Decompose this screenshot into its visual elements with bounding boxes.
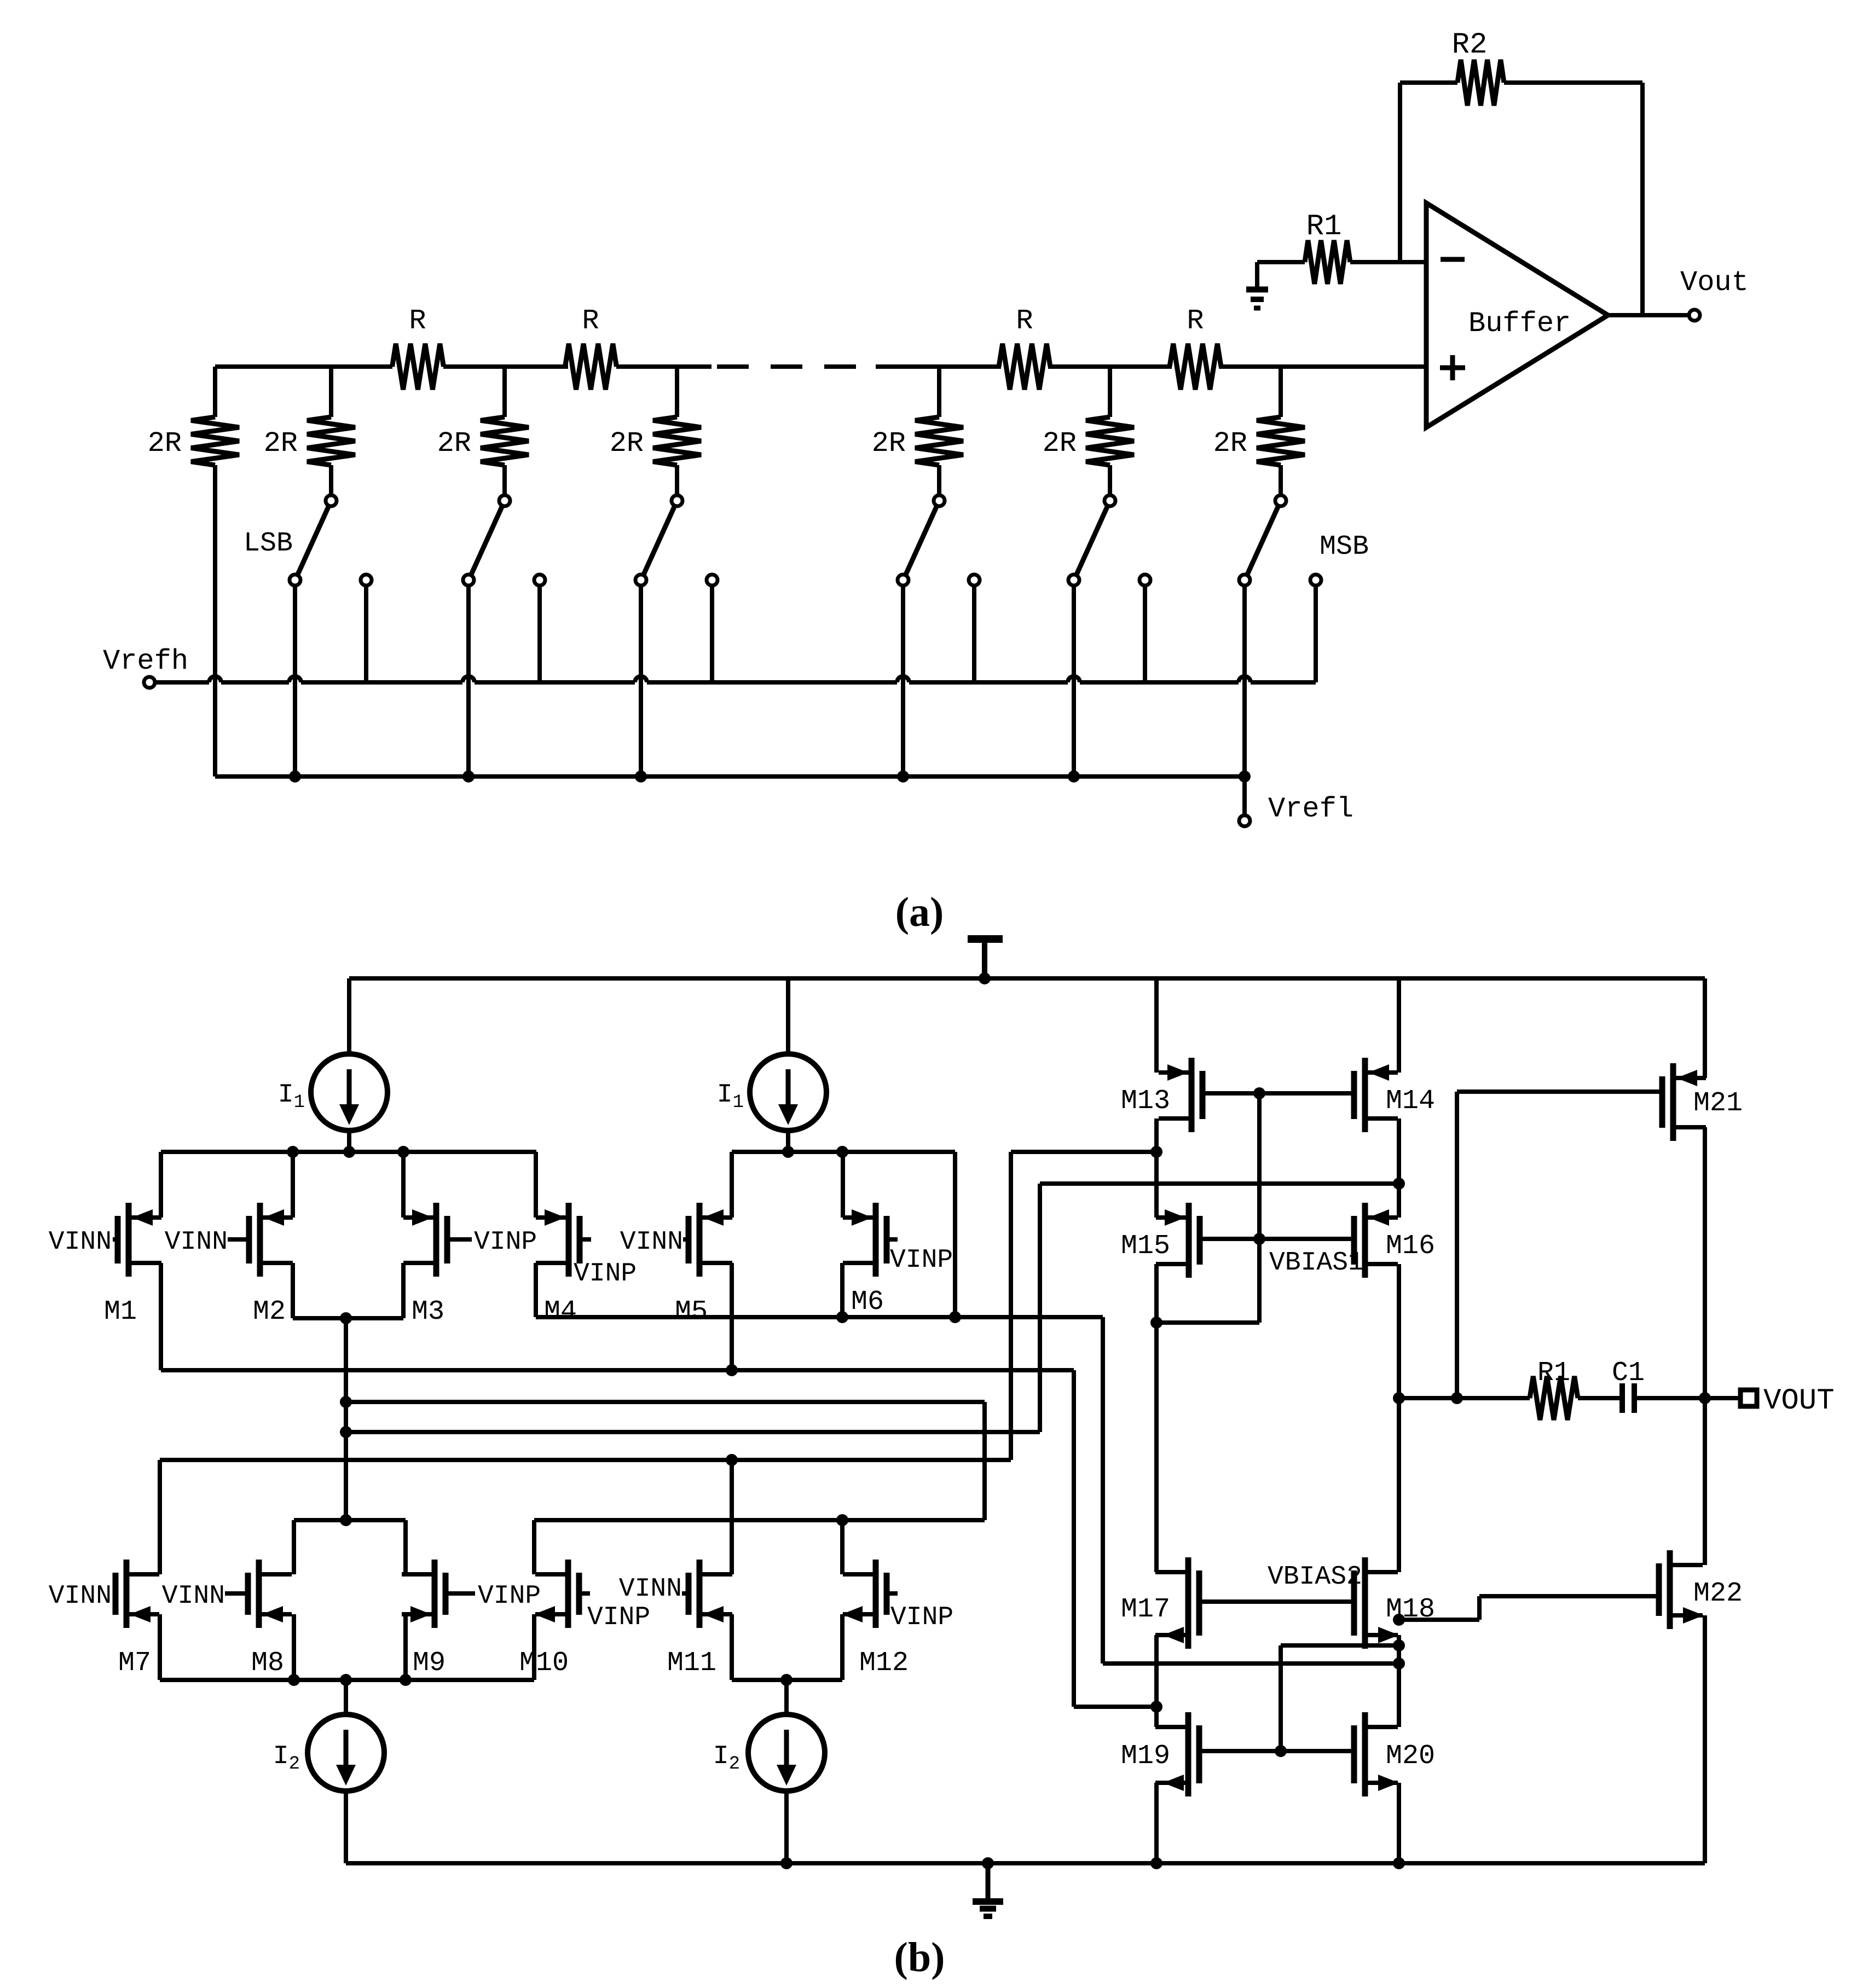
switch S2 right contact <box>534 575 545 586</box>
junction M12 busF <box>836 1514 848 1526</box>
switch S3 common <box>672 495 682 506</box>
transistor M17 <box>1185 1557 1191 1649</box>
transistor M6 <box>873 1203 879 1277</box>
junction Vrefl <box>635 770 647 783</box>
switch S5 lever <box>1076 506 1108 576</box>
wire gate1920 link <box>1281 1643 1399 1648</box>
junction Vrefl corner <box>1239 770 1251 783</box>
wire ladder seg3 <box>616 364 712 369</box>
switch S6 lever <box>1247 506 1279 576</box>
wire R1a left lead <box>1257 260 1305 264</box>
wire trio1 drain bus <box>294 1518 406 1522</box>
wire M19M20 gate wire <box>1199 1749 1354 1753</box>
svg-text:VINN: VINN <box>162 1581 225 1611</box>
current source I1b <box>750 1054 826 1131</box>
wire M13-M15 link <box>1154 1118 1159 1218</box>
wire ladder seg6 <box>1219 364 1426 369</box>
wire M11 gate lead <box>682 1591 689 1596</box>
junction rowA V1 <box>949 1311 961 1323</box>
wire M5 gate lead <box>683 1237 689 1242</box>
junction Vrefl <box>897 770 909 783</box>
wire 2R6 bottom lead <box>1108 465 1112 495</box>
wire M9 top up <box>403 1520 408 1574</box>
svg-text:VINN: VINN <box>620 1227 683 1257</box>
svg-text:R2: R2 <box>1452 28 1488 62</box>
resistor R (2nd) <box>565 344 617 390</box>
wire bus1 <box>161 1150 536 1154</box>
junction x632 rowC <box>340 1396 352 1408</box>
switch S4 right contact <box>969 575 980 586</box>
svg-text:R: R <box>1016 305 1033 337</box>
wire row A <box>536 1315 1103 1319</box>
junction M22 gate tap <box>1393 1614 1405 1626</box>
junction bus1 M2 <box>287 1146 299 1158</box>
svg-text:Vout: Vout <box>1680 266 1749 299</box>
wire row B <box>161 1368 1074 1372</box>
switch S4 lever <box>905 506 937 576</box>
wire V4 <box>1072 1370 1076 1707</box>
junction M6 rowA <box>836 1311 848 1323</box>
wire M12 bottom down <box>840 1614 844 1680</box>
transistor M14 <box>1362 1058 1368 1132</box>
switch S2 lever <box>471 506 502 576</box>
current source I1a <box>311 1054 387 1131</box>
wire ladder left segment <box>215 364 392 369</box>
hop S4 over Vrefh <box>897 676 909 682</box>
switch S2 left contact <box>463 575 474 586</box>
wire out1 line <box>1399 1396 1530 1400</box>
wire feedback right vert <box>1640 83 1645 315</box>
transistor M4 <box>566 1203 572 1277</box>
wire row D <box>346 1430 1040 1434</box>
junction bus2 I1b <box>782 1146 794 1158</box>
svg-text:Vrefl: Vrefl <box>1268 793 1353 825</box>
wire M12 drain up <box>840 1520 844 1574</box>
wire I1a bottom lead <box>347 1131 351 1152</box>
svg-text:M13: M13 <box>1121 1086 1170 1117</box>
switch S2 common <box>499 495 510 506</box>
switch S5 left contact <box>1068 575 1079 586</box>
hop 2R1 over Vrefh <box>209 676 221 682</box>
hop S5 over Vrefh <box>1068 676 1080 682</box>
junction Q end <box>1150 1701 1162 1713</box>
wire M20 source down <box>1397 1783 1401 1863</box>
switch S5 common <box>1104 495 1115 506</box>
wire M2 top up <box>291 1152 295 1218</box>
wire 2R3 bottom lead <box>502 465 507 495</box>
wire M17 column down <box>1154 1635 1159 1727</box>
svg-text:Vrefh: Vrefh <box>103 645 188 677</box>
wire 2R6 top lead <box>1108 367 1112 417</box>
svg-text:VINP: VINP <box>890 1603 953 1632</box>
transistor M1 <box>126 1203 132 1277</box>
junction M5 rowB <box>726 1364 738 1376</box>
transistor M5 <box>697 1203 703 1277</box>
svg-text:R: R <box>409 305 426 337</box>
junction M15 drain tap <box>1150 1317 1162 1329</box>
transistor M22 <box>1667 1550 1673 1629</box>
hop S1 over Vrefh <box>289 676 301 682</box>
junction bus2 at M13 column <box>1150 1146 1162 1158</box>
junction M18 col P... gate19 link <box>1393 1639 1405 1651</box>
wire M19 source down <box>1154 1783 1159 1863</box>
wire S4 left contact to Vrefl <box>901 586 905 776</box>
svg-text:M14: M14 <box>1386 1086 1435 1117</box>
hop S3 over Vrefh <box>635 676 647 682</box>
wire V1 <box>953 1152 957 1317</box>
resistor R (1st) <box>392 344 444 390</box>
wire M12 gate lead <box>887 1591 898 1596</box>
wire Vrefh bus <box>155 680 209 685</box>
terminal Vrefh <box>144 677 155 688</box>
wire M2 bottom down <box>291 1263 295 1318</box>
junction P end <box>1393 1657 1405 1670</box>
current source I2b <box>748 1714 825 1791</box>
svg-text:(a): (a) <box>895 889 944 935</box>
wire M4 bottom down <box>534 1263 538 1317</box>
wire S6 right contact to Vrefh <box>1314 586 1318 682</box>
junction Vrefl <box>462 770 475 783</box>
transistor M20 <box>1362 1712 1368 1796</box>
wire M11 bottom down <box>730 1614 734 1680</box>
wire M1 gate lead <box>113 1237 118 1242</box>
wire V2 <box>1009 1152 1013 1460</box>
switch S4 left contact <box>898 575 909 586</box>
wire 2R4 bottom lead <box>675 465 679 495</box>
wire vert x2301 <box>1257 1093 1262 1323</box>
junction rail VDD <box>979 972 991 984</box>
wire feedback top right <box>1504 80 1642 85</box>
wire 2R2 bottom lead <box>329 465 333 495</box>
wire S4 right contact to Vrefh <box>972 586 976 682</box>
svg-text:VBIAS2: VBIAS2 <box>1268 1562 1362 1592</box>
current source I2a <box>308 1714 384 1791</box>
svg-text:VINP: VINP <box>474 1227 537 1257</box>
transistor M9 <box>432 1560 438 1628</box>
op-amp minus sign <box>1441 257 1465 262</box>
svg-text:M4: M4 <box>544 1296 577 1328</box>
svg-text:VINN: VINN <box>49 1227 112 1257</box>
wire 2R7 top lead <box>1279 367 1283 417</box>
resistor R (3rd) <box>999 344 1050 390</box>
switch S3 lever <box>643 506 675 576</box>
svg-text:M12: M12 <box>859 1648 909 1679</box>
resistor 2R1 <box>191 417 239 465</box>
wire M18 column down <box>1397 1635 1401 1727</box>
wire 2R1 down to Vrefl <box>213 465 217 776</box>
terminal VOUT square <box>1740 1390 1757 1406</box>
capacitor C1 <box>1619 1383 1625 1413</box>
svg-text:VINN: VINN <box>49 1581 112 1611</box>
junction bus1 I1a <box>343 1146 355 1158</box>
wire ladder seg5 <box>1048 364 1172 369</box>
wire M6 gate lead <box>887 1237 898 1242</box>
junction M21 gate tap <box>1451 1392 1463 1404</box>
resistor R1b <box>1530 1376 1578 1420</box>
svg-text:2R: 2R <box>264 427 298 460</box>
wire M17M18 gate wire <box>1199 1599 1354 1604</box>
switch S3 right contact <box>707 575 718 586</box>
transistor M7 <box>124 1560 130 1628</box>
wire minus input <box>1350 260 1426 264</box>
junction tail2 I2b <box>780 1674 793 1686</box>
wire x2301 to M15 drain <box>1156 1320 1259 1325</box>
svg-text:M22: M22 <box>1693 1578 1743 1609</box>
transistor M3 <box>433 1203 439 1277</box>
wire I1a top lead <box>347 978 351 1054</box>
junction tail1 I2a <box>340 1674 352 1686</box>
svg-text:VINP: VINP <box>478 1581 541 1611</box>
transistor M18 <box>1362 1557 1368 1649</box>
wire ladder dashed segment <box>717 364 876 369</box>
junction bus1 M3 <box>397 1146 409 1158</box>
wire C1-out <box>1634 1396 1705 1400</box>
wire busF <box>534 1518 985 1522</box>
switch S6 left contact <box>1239 575 1250 586</box>
wire M9 gate lead <box>446 1591 475 1596</box>
hop S6 over Vrefh <box>1239 676 1251 682</box>
transistor M12 <box>873 1560 879 1628</box>
resistor 2R4 <box>653 417 701 465</box>
svg-text:M5: M5 <box>675 1296 708 1328</box>
svg-text:M3: M3 <box>412 1296 444 1328</box>
wire I2b bottom lead <box>784 1791 789 1863</box>
junction gnd I2b <box>780 1857 793 1869</box>
wire M5 top up <box>730 1152 734 1218</box>
wire rail to M21 <box>1703 978 1707 1078</box>
wire I2a top lead <box>344 1680 348 1714</box>
switch S4 common <box>934 495 945 506</box>
transistor M11 <box>697 1560 703 1628</box>
junction Vrefl <box>289 770 301 783</box>
wire M4 gate lead <box>580 1237 591 1242</box>
svg-text:R1: R1 <box>1537 1358 1570 1389</box>
wire S3 left contact to Vrefl <box>639 586 643 776</box>
junction M2M3 tail <box>340 1312 352 1324</box>
wire R1b-C1 <box>1578 1396 1622 1400</box>
wire M21 gate drop <box>1455 1092 1459 1398</box>
wire M11 drain up <box>730 1460 734 1574</box>
wire ladder seg2 <box>443 364 568 369</box>
wire M4 top up <box>534 1152 538 1218</box>
wire S5 right contact to Vrefh <box>1143 586 1147 682</box>
svg-text:R: R <box>582 305 599 337</box>
wire M13M14 gate wire <box>1202 1091 1354 1096</box>
switch S1 common <box>326 495 337 506</box>
switch S5 right contact <box>1139 575 1150 586</box>
svg-text:VINN: VINN <box>619 1574 682 1604</box>
resistor 2R6 <box>1086 417 1134 465</box>
resistor R2 <box>1457 60 1504 106</box>
wire feedback left vert <box>1398 83 1402 262</box>
op-amp plus sign <box>1440 366 1465 370</box>
wire 2R2 top lead <box>329 367 333 417</box>
svg-text:M20: M20 <box>1386 1741 1435 1772</box>
svg-text:Buffer: Buffer <box>1468 308 1571 340</box>
svg-text:M10: M10 <box>519 1648 569 1679</box>
junction tail1 M9 <box>400 1674 412 1686</box>
svg-text:M9: M9 <box>413 1648 446 1679</box>
terminal Vout <box>1689 310 1700 321</box>
wire S2 left contact to Vrefl <box>466 586 471 776</box>
transistor M10 <box>565 1560 571 1628</box>
transistor M21 <box>1670 1063 1676 1141</box>
wire Q <box>1074 1705 1156 1709</box>
wire S6 left contact to Vrefl <box>1242 586 1247 776</box>
svg-text:(b): (b) <box>894 1934 945 1980</box>
junction x632 rowD <box>340 1426 352 1438</box>
svg-text:M8: M8 <box>251 1648 284 1679</box>
junction x2301 gate1516 <box>1253 1233 1265 1245</box>
wire M6 top up <box>841 1152 845 1218</box>
svg-text:VBIAS1: VBIAS1 <box>1269 1248 1364 1278</box>
wire M7 drain up <box>158 1460 162 1574</box>
svg-text:M1: M1 <box>104 1296 137 1328</box>
wire row E <box>160 1458 1011 1462</box>
svg-text:VINP: VINP <box>574 1259 637 1289</box>
wire rowC drop <box>982 1402 987 1520</box>
switch S6 right contact <box>1310 575 1321 586</box>
svg-text:VOUT: VOUT <box>1763 1384 1835 1418</box>
svg-text:M17: M17 <box>1121 1594 1170 1625</box>
wire M15 column down <box>1154 1264 1159 1572</box>
transistor M13 <box>1189 1058 1195 1132</box>
junction tail1 M8 <box>288 1674 300 1686</box>
switch S3 left contact <box>635 575 646 586</box>
wire M14 column top <box>1397 978 1401 1073</box>
wire ground bus <box>346 1861 1705 1865</box>
transistor M2 <box>257 1203 263 1277</box>
wire trio1 tail bus <box>160 1678 534 1682</box>
wire M7 gate lead <box>113 1591 115 1596</box>
wire S5 left contact to Vrefl <box>1072 586 1076 776</box>
wire W2 <box>1011 1150 1156 1154</box>
svg-text:MSB: MSB <box>1320 531 1369 563</box>
wire Vrefl bus <box>215 774 1245 779</box>
junction M11 rowE <box>726 1454 738 1466</box>
wire M1 source down <box>159 1263 163 1370</box>
wire P <box>1103 1661 1399 1666</box>
svg-text:R1: R1 <box>1306 210 1342 244</box>
wire M14-M16 link <box>1397 1118 1401 1218</box>
wire I2a bottom lead <box>344 1791 348 1863</box>
svg-text:M7: M7 <box>118 1648 151 1679</box>
resistor 2R2 <box>307 417 355 465</box>
wire M13 column top <box>1154 978 1159 1073</box>
switch S1 right contact <box>361 575 372 586</box>
wire M3 gate lead <box>447 1237 472 1242</box>
svg-text:2R: 2R <box>872 427 906 460</box>
wire vert x632 <box>344 1318 348 1520</box>
wire M21 gate wire <box>1457 1089 1662 1094</box>
junction W3 end <box>1393 1178 1405 1190</box>
op-amp Buffer <box>1426 203 1608 427</box>
junction gnd stub <box>982 1857 994 1869</box>
wire M10 bottom down <box>532 1614 536 1680</box>
wire I2b top lead <box>784 1680 789 1714</box>
wire W3 <box>1040 1181 1399 1186</box>
VDD symbol <box>982 942 987 978</box>
resistor 2R3 <box>481 417 529 465</box>
svg-text:M2: M2 <box>253 1296 286 1328</box>
wire M8 gate lead <box>225 1591 248 1596</box>
wire I1b bottom lead <box>786 1131 790 1152</box>
wire 2R4 top lead <box>675 367 679 417</box>
svg-text:R: R <box>1187 305 1204 337</box>
svg-text:M18: M18 <box>1386 1594 1435 1625</box>
wire M9 bottom down <box>403 1614 408 1680</box>
wire row C <box>346 1400 985 1404</box>
ground R1a <box>1255 262 1259 287</box>
wire M3 top up <box>401 1152 406 1218</box>
svg-text:VINN: VINN <box>165 1227 228 1257</box>
wire out to VOUT <box>1705 1396 1740 1400</box>
svg-text:M16: M16 <box>1386 1231 1435 1262</box>
wire I1b top lead <box>786 978 790 1054</box>
svg-text:VINP: VINP <box>890 1245 953 1275</box>
wire M8 top up <box>292 1520 296 1574</box>
svg-text:M11: M11 <box>667 1648 716 1679</box>
junction Vrefl <box>1068 770 1080 783</box>
switch S1 lever <box>297 506 329 576</box>
wire S2 right contact to Vrefh <box>537 586 542 682</box>
wire 2R3 top lead <box>502 367 507 417</box>
junction gate1920 <box>1275 1745 1287 1757</box>
svg-text:M21: M21 <box>1693 1088 1743 1119</box>
resistor R (4th) <box>1170 344 1221 390</box>
ground symbol <box>986 1863 991 1899</box>
wire output <box>1608 313 1689 317</box>
junction gnd M19 <box>1150 1857 1162 1869</box>
wire M22 source down <box>1703 1615 1707 1863</box>
svg-text:LSB: LSB <box>244 528 293 559</box>
svg-text:2R: 2R <box>1043 427 1077 460</box>
svg-text:M19: M19 <box>1121 1741 1170 1772</box>
svg-text:2R: 2R <box>148 427 182 460</box>
junction gnd M20 <box>1393 1857 1405 1869</box>
wire M15M16 gate wire <box>1200 1237 1354 1241</box>
switch S6 common <box>1275 495 1286 506</box>
wire M2M3 tail bus <box>293 1316 403 1320</box>
wire M3 bottom down <box>401 1263 406 1318</box>
transistor M16 <box>1362 1203 1368 1278</box>
svg-text:2R: 2R <box>437 427 471 460</box>
wire VDD rail <box>349 976 1705 981</box>
svg-text:C1: C1 <box>1612 1358 1645 1389</box>
wire trio2 tail bus <box>732 1678 842 1682</box>
wire M2 gate lead <box>228 1237 249 1242</box>
wire M8 bottom down <box>292 1614 296 1680</box>
wire M7 source down <box>158 1614 162 1680</box>
transistor M15 <box>1186 1203 1192 1278</box>
wire ladder seg4 <box>876 364 1001 369</box>
hop S2 over Vrefh <box>462 676 475 682</box>
wire M16 column down <box>1397 1264 1401 1572</box>
wire M10 top up <box>532 1520 536 1574</box>
wire 2R1 top lead <box>213 367 217 417</box>
wire 2R5 top lead <box>937 367 941 417</box>
svg-text:2R: 2R <box>1213 427 1247 460</box>
wire 2R7 bottom lead <box>1279 465 1283 495</box>
junction gate1314 <box>1253 1087 1265 1099</box>
junction out1 node <box>1393 1392 1405 1404</box>
svg-text:2R: 2R <box>610 427 644 460</box>
wire M1 drain up <box>159 1152 163 1218</box>
wire M5 drain down <box>730 1263 734 1370</box>
wire S1 left contact to Vrefl <box>293 586 297 776</box>
wire 2R5 bottom lead <box>937 465 941 495</box>
wire bus2 <box>732 1150 955 1154</box>
